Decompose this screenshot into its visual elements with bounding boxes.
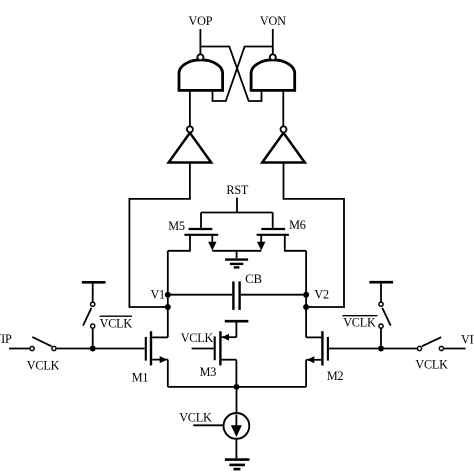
svg-text:VCLK: VCLK <box>100 316 133 330</box>
svg-text:M3: M3 <box>200 365 217 379</box>
svg-text:V2: V2 <box>314 288 329 302</box>
svg-text:M5: M5 <box>168 219 185 233</box>
svg-text:RST: RST <box>226 183 249 197</box>
svg-text:V1: V1 <box>150 287 165 301</box>
svg-text:M2: M2 <box>327 369 344 383</box>
svg-text:M6: M6 <box>289 218 306 232</box>
svg-text:VCLK: VCLK <box>27 359 60 373</box>
svg-text:VON: VON <box>260 14 286 28</box>
svg-text:VCLK: VCLK <box>343 315 376 329</box>
svg-text:CB: CB <box>245 272 262 286</box>
svg-text:VCLK: VCLK <box>415 358 448 372</box>
svg-text:VIP: VIP <box>0 332 12 346</box>
svg-text:VIN: VIN <box>461 332 474 346</box>
svg-text:M1: M1 <box>132 371 149 385</box>
svg-text:VCLK: VCLK <box>179 411 212 425</box>
svg-text:VCLK: VCLK <box>181 331 214 345</box>
svg-text:VOP: VOP <box>189 14 213 28</box>
